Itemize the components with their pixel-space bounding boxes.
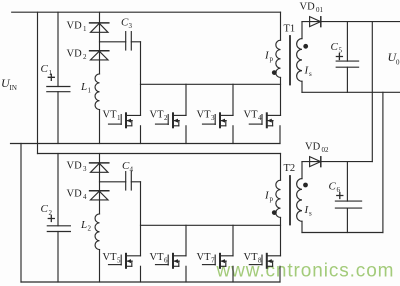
- bottom rail: [21, 281, 280, 283]
- svg-text:1: 1: [83, 25, 87, 33]
- svg-text:L: L: [80, 219, 87, 231]
- transistor VT1: [103, 110, 141, 144]
- wire diode branch section1: [99, 12, 101, 74]
- capacitor C4: [122, 160, 141, 190]
- inductor L1: [80, 74, 100, 110]
- svg-text:0: 0: [396, 59, 400, 67]
- svg-text:1: 1: [117, 114, 121, 122]
- transistor VT6: [150, 225, 187, 282]
- wire junction to C3: [100, 41, 126, 43]
- svg-text:VD: VD: [67, 161, 83, 172]
- svg-text:5: 5: [117, 257, 121, 265]
- wire L2 to bottom rail: [99, 250, 101, 282]
- transistor VT3: [197, 84, 234, 143]
- svg-text:6: 6: [164, 257, 168, 265]
- transistor VT4: [244, 110, 281, 144]
- wire C3 down to VT1 drain: [140, 42, 142, 116]
- svg-text:T1: T1: [284, 24, 296, 35]
- svg-text:3: 3: [129, 22, 133, 30]
- svg-text:VT: VT: [197, 110, 212, 121]
- diode VD3: [67, 161, 109, 174]
- svg-text:VD: VD: [67, 49, 83, 60]
- svg-text:3: 3: [83, 165, 87, 173]
- svg-text:2: 2: [83, 53, 87, 61]
- svg-text:VD: VD: [305, 142, 321, 153]
- diode VD2: [67, 49, 109, 62]
- output1 top wire: [302, 21, 400, 23]
- transformer T1 label: [284, 24, 296, 35]
- transistor VT2: [150, 84, 187, 143]
- wire vertical output1 bottom to output2 bottom: [382, 92, 384, 232]
- svg-text:VT: VT: [103, 110, 118, 121]
- svg-text:VD: VD: [67, 189, 83, 200]
- svg-text:VT: VT: [197, 252, 212, 263]
- wire line2 (section2 positive rail): [38, 153, 281, 155]
- svg-text:4: 4: [130, 166, 134, 174]
- svg-text:4: 4: [258, 114, 262, 122]
- wire L1 to line1: [99, 110, 101, 144]
- svg-text:VT: VT: [150, 252, 165, 263]
- svg-text:2: 2: [164, 114, 168, 122]
- wire vertical output1 top to output2 top: [371, 22, 373, 162]
- svg-text:01: 01: [316, 6, 324, 14]
- transformer T2 primary: [264, 154, 281, 256]
- capacitor C1: [41, 12, 70, 143]
- svg-text:4: 4: [83, 193, 87, 201]
- capacitor C3: [121, 17, 141, 51]
- output1 bottom wire: [302, 91, 400, 93]
- svg-text:p: p: [270, 55, 274, 63]
- transformer T2 core: [289, 176, 291, 225]
- svg-text:VT: VT: [244, 252, 259, 263]
- svg-text:www.cntronics.com: www.cntronics.com: [216, 261, 395, 282]
- node U0: [388, 50, 400, 67]
- wire line1 (section1 negative rail): [11, 143, 281, 145]
- transistor VT7: [197, 225, 234, 282]
- wire diode branch section2: [99, 154, 101, 214]
- wire C4 down to VT5 drain: [140, 182, 142, 256]
- transformer T2 label: [284, 163, 296, 174]
- wire drop line1 to bottom rail: [20, 144, 22, 283]
- svg-text:8: 8: [258, 257, 262, 265]
- svg-text:C: C: [41, 203, 49, 215]
- capacitor C2: [41, 154, 71, 283]
- svg-text:s: s: [309, 210, 312, 218]
- svg-text:C: C: [41, 63, 49, 75]
- svg-text:VD: VD: [300, 2, 316, 13]
- svg-text:2: 2: [88, 225, 92, 233]
- transistor VT8: [244, 252, 281, 282]
- capacitor C5: [331, 22, 359, 93]
- output2 bottom wire: [302, 232, 383, 234]
- transformer T1 core: [289, 36, 291, 85]
- wire drain rail section1: [141, 83, 281, 85]
- capacitor C6: [329, 162, 362, 233]
- wire drain rail section2: [141, 224, 281, 226]
- svg-text:VT: VT: [150, 110, 165, 121]
- svg-text:VD: VD: [67, 21, 83, 32]
- output2 top wire: [302, 161, 372, 163]
- diode VD4: [67, 189, 109, 202]
- svg-text:C: C: [331, 41, 339, 53]
- svg-text:T2: T2: [284, 163, 296, 174]
- wire left drop to line2: [37, 12, 39, 153]
- svg-text:3: 3: [211, 114, 215, 122]
- wire junction to C4: [100, 181, 126, 183]
- diode VD1: [67, 21, 109, 34]
- transformer T1 secondary: [297, 22, 312, 93]
- svg-text:VT: VT: [244, 110, 259, 121]
- svg-text:L: L: [80, 81, 87, 93]
- svg-text:s: s: [309, 70, 312, 78]
- svg-text:VT: VT: [103, 252, 118, 263]
- node U_IN: [1, 76, 17, 92]
- diode VD01: [300, 2, 324, 27]
- diode VD02: [305, 142, 329, 167]
- svg-text:02: 02: [322, 146, 330, 154]
- svg-text:C: C: [329, 181, 337, 193]
- svg-text:IN: IN: [10, 84, 17, 92]
- svg-text:7: 7: [211, 257, 215, 265]
- svg-text:1: 1: [88, 87, 92, 95]
- svg-text:p: p: [270, 195, 274, 203]
- top rail: [12, 11, 281, 13]
- transformer T1 primary: [264, 12, 281, 115]
- transformer T2 secondary: [297, 162, 312, 233]
- inductor L2: [80, 214, 100, 250]
- transistor VT5: [103, 252, 141, 282]
